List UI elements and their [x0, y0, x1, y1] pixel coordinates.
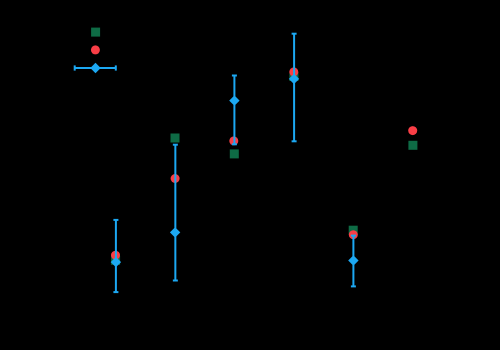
green square marker G4 (cluster D) [230, 149, 239, 158]
red circle marker R2 (cluster B) [111, 251, 120, 260]
red circle marker R5 (cluster E) [289, 67, 298, 76]
red circle marker R1 (cluster A) [91, 45, 100, 54]
blue diamond marker D4 (cluster D) [229, 95, 239, 105]
blue diamond marker D1 (cluster A) [90, 63, 100, 73]
green square marker G3 (cluster C) [171, 134, 180, 143]
blue y-error bar E5 (cluster E) [292, 34, 297, 142]
green square marker G1 (cluster A) [91, 28, 100, 37]
green square marker G2 (cluster B, behind red/blue) [111, 256, 120, 265]
green square marker G7 (cluster G) [408, 141, 417, 150]
blue y-error bar E4 (cluster D) [232, 76, 237, 145]
blue y-error bar E2 (cluster B) [113, 220, 118, 292]
blue diamond marker D3 (cluster C) [170, 227, 180, 237]
blue y-error bar E6 (cluster F) [351, 236, 356, 287]
blue diamond marker D2 (cluster B) [111, 257, 121, 267]
green square marker G6 (cluster F) [349, 226, 358, 235]
blue x-error bar E1 (cluster A) [75, 65, 116, 70]
blue diamond marker D6 (cluster F) [348, 255, 358, 265]
blue diamond marker D5 (cluster E) [289, 74, 299, 84]
blue y-error bar E3 (cluster C) [173, 145, 178, 281]
red circle marker R3 (cluster C) [171, 174, 180, 183]
red circle marker R6 (cluster F) [349, 230, 358, 239]
red circle marker R4 (cluster D) [229, 136, 238, 145]
green square marker G5 (cluster E, behind red/blue) [289, 72, 298, 81]
red circle marker R7 (cluster G) [408, 126, 417, 135]
